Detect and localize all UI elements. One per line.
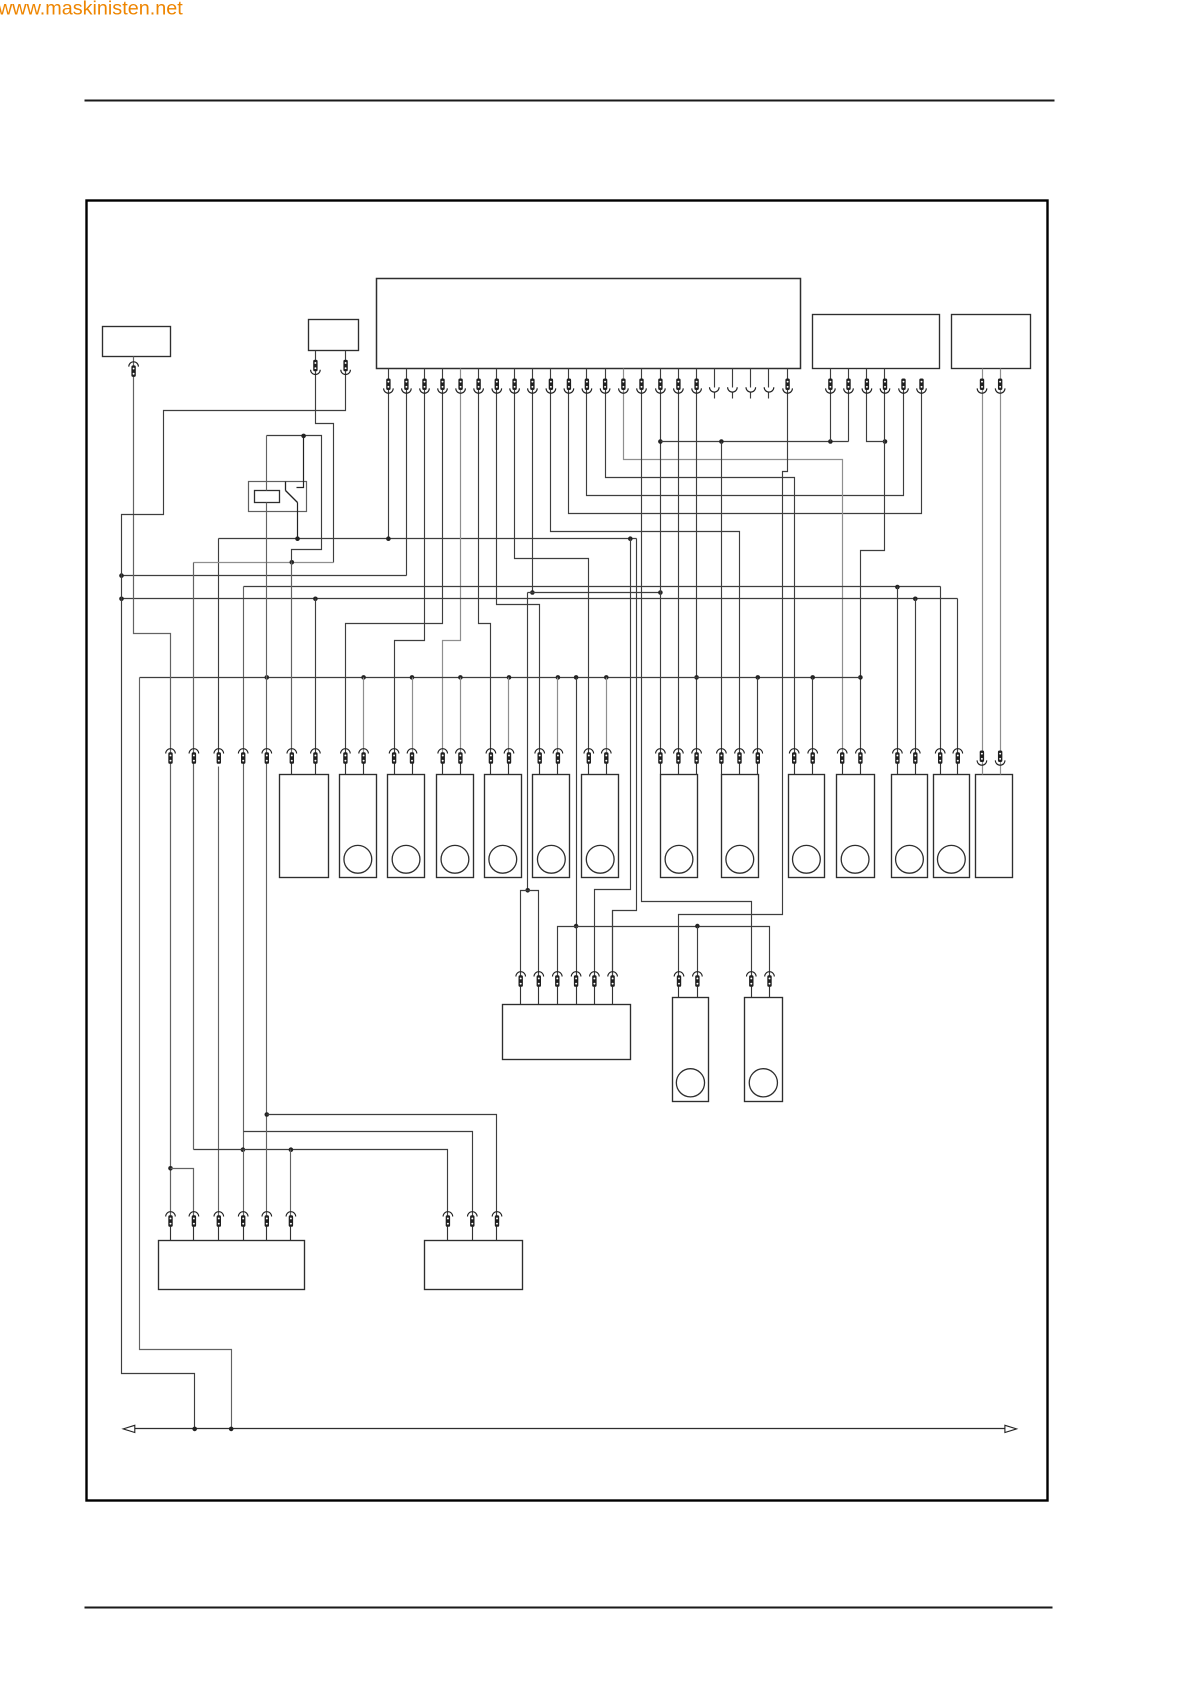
junction B3 pin4 wire on common bus [858,675,863,680]
stub into box I pin2 [739,764,741,775]
wire bus drop to lamp pin at x 509.0 [508,678,510,754]
stub into box R pin2 [769,987,771,998]
stub into box A pin2 [315,764,317,775]
wire W3 right end down to lamp M pin1 [940,587,942,754]
junction B3 pin1 end on h441 [828,439,833,444]
connector pin A1 [287,749,297,754]
component box A [280,775,329,878]
wire bus drop to lamp J pin2 [812,678,814,754]
connector pin P5 [590,972,600,977]
junction chain A branch to S2 [168,1166,173,1171]
junction common bus lamp D pin2 [458,675,463,680]
junction lamp Q pin2 on lower bus [695,924,700,929]
stub into box H pin2 [678,764,680,775]
connector pin F2 [553,749,563,754]
tail ECU pin22 [768,393,770,399]
connector pin I3 [753,749,763,754]
wire ECU pin13 to lamp J pin1 [606,369,795,754]
stub into box J pin1 [794,764,796,775]
connector pin P6 [608,972,618,977]
arrowhead bottom rail left [123,1425,135,1432]
connector pin S1 [166,1212,176,1217]
stub into box P pin4 [576,987,578,1005]
lamp box E [485,775,522,878]
stub into box B pin2 [363,764,365,775]
junction lamp A pin2 drop on W4 [313,597,318,602]
stub into box F pin1 [539,764,541,775]
connector pin Q2 [693,972,703,977]
ECU main control unit box [377,279,801,369]
lamp box L [892,775,928,878]
wire ECU pin12 across to B3 pin5 [587,369,904,496]
wire ECU pin23 to lamp Q pin1 [679,369,788,977]
connector pin F1 [535,749,545,754]
wire P4 drop from lower bus [576,927,578,977]
stub into box Q pin2 [697,987,699,998]
connector pin B2 [359,749,369,754]
connector pin B4 pin1 [980,379,984,391]
connector socket ECU pin19 unconnected [710,387,720,392]
lamp box C [388,775,425,878]
connector pin I2 [735,749,745,754]
connector pin ECU pin15 [639,379,643,391]
junction common bus lamp G pin2 [604,675,609,680]
wire B2 pin1 down jog chain B [316,351,334,563]
lamp box D [437,775,474,878]
relay K1 switch blade [286,491,298,503]
connector pin P4 [571,972,581,977]
wire ECU pin15 to lamp R pin1 [642,369,752,977]
relay K1 switch contact arm [297,437,304,488]
junction pin9 on W7 [530,590,535,595]
connector pin J2 [808,749,818,754]
connector pin on left box B1 [129,362,139,367]
connector pin N2 [998,751,1002,763]
inline connector at x 193.9 [189,749,199,754]
junction W7 on H1 riser [658,590,663,595]
lamp box H [661,775,698,878]
stub into box H pin3 [696,764,698,775]
lamp circle in box F [537,845,565,873]
connector pin G1 [584,749,594,754]
arrowhead bottom rail right [1005,1425,1017,1432]
wire W1 left end down to connector S3 chain [218,539,220,754]
wire bracket to P1 and P2 [521,891,539,977]
stub into box S pin5 [266,1227,268,1241]
connector pin H1 [656,749,666,754]
connector pin ECU pin17 [676,379,680,391]
junction ECU pin1 on W1 [386,536,391,541]
wire relay coil chain below coil [266,503,268,1217]
wire branch to T pin2 [244,1132,473,1217]
connector pin R1 [747,972,757,977]
tail ECU pin19 [714,393,716,399]
lamp box M [934,775,970,878]
stub into box D pin1 [442,764,444,775]
connector socket ECU pin22 unconnected [764,387,774,392]
junction lamp A pin1 net on chain B [290,560,295,565]
wire ECU pin8 to lamp G jog [515,369,589,754]
component box P [503,1005,631,1060]
connector pin P2 [534,972,544,977]
wire bus drop to lamp pin at x 606.3 [606,678,608,754]
connector pin D2 [456,749,466,754]
connector pin S5 [262,1212,272,1217]
junction pin18 on common bus [694,675,699,680]
connector pin S4 [238,1212,248,1217]
stub into box E pin2 [508,764,510,775]
stub into box S pin1 [170,1227,172,1241]
stub into box P pin1 [520,987,522,1005]
inline connector at x 218.8 [214,749,224,754]
tail ECU pin21 [750,393,752,399]
connector pin P1 [516,972,526,977]
connector pin R2 [765,972,775,977]
connector pin H2 [674,749,684,754]
wire stem W7 down to P1 P2 bracket [527,593,529,891]
connector pin C2 [407,749,417,754]
wire W4 right end down to lamp M pin2 [957,599,959,754]
junction h441 lamp I pin1 branch [719,439,724,444]
connector pin ECU pin3 [422,379,426,391]
connector pin L1 [893,749,903,754]
stub into box I pin1 [721,764,723,775]
stub into box M pin2 [957,764,959,775]
connector pin D1 [438,749,448,754]
diagram outer border frame [87,201,1048,1501]
lamp circle in box D [441,845,469,873]
inline connector at x 170.5 [166,749,176,754]
wire ECU pin4 to lamp B jog [346,369,443,754]
stub into box S pin2 [193,1227,195,1241]
wire relay net riser from chain B junction [267,436,322,563]
stub into box B pin1 [345,764,347,775]
box B1 left sensor [103,327,171,357]
stub into box Q pin1 [678,987,680,998]
lamp circle in box C [392,845,420,873]
bottom rail wire [129,1428,1011,1430]
stub into box K pin2 [860,764,862,775]
connector socket ECU pin21 unconnected [746,387,756,392]
junction common bus lamp E pin2 [507,675,512,680]
connector pin J1 [789,749,799,754]
wire bus drop to lower bus at P [576,678,578,927]
wire W3 left end down chain to S4 and T2 [243,587,245,1150]
junction S4 on chain B horizontal [241,1147,246,1152]
wire ECU pin7 to lamp F jog [497,369,540,754]
connector pin A2 [311,749,321,754]
connector pin ECU pin12 [585,379,589,391]
connector pin T3 [492,1212,502,1217]
connector pin N1 [980,751,984,763]
junction common bus lamp I pin3 [756,675,761,680]
wire ECU pin9 drop to net W7 [532,369,534,593]
wire ECU pin16 drop to lamp H pin1 [660,369,662,754]
lamp circle in box B [344,845,372,873]
box B4 far right module [952,315,1031,369]
connector pin 2 on box B2 [343,360,347,372]
wire S6 stub [290,1150,292,1217]
connector pin I1 [717,749,727,754]
lamp circle in box K [841,845,869,873]
wire bus drop to lamp I pin3 [757,678,759,754]
connector pin B3 pin2 [846,379,850,391]
lamp circle in box M [937,845,965,873]
wire B3 pin4 long drop to lamp K pin2 [861,369,885,754]
junction chain C branch to T3 [265,1112,270,1117]
stub into box P pin5 [594,987,596,1005]
stub into box C pin2 [412,764,414,775]
wire lamp L pin1 riser [897,587,899,754]
lamp box J [789,775,825,878]
connector pin ECU pin4 [440,379,444,391]
wire bus drop to lamp pin at x 363.6 [363,678,365,754]
wire bus drop to lamp pin at x 460.4 [460,678,462,754]
lamp box K [837,775,875,878]
stub into box T pin1 [447,1227,449,1241]
junction common bus lamp B pin2 [361,675,366,680]
connector pin ECU pin6 [476,379,480,391]
junction lamp L pin1 riser on W3 [895,585,900,590]
junction relay contact feed [301,434,306,439]
connector pin S6 [286,1212,296,1217]
wire net W7 horizontal [528,592,661,594]
connector pin ECU pin8 [512,379,516,391]
wire B4 pin2 drop to box N pin2 [1000,369,1002,775]
lamp box I [722,775,759,878]
stub into box P pin6 [612,987,614,1005]
wire ECU pin10 to lamp I pin2 [551,369,740,754]
lamp circle in box G [586,845,614,873]
wire ECU pin14 to lamp K pin1 [624,369,843,754]
wire P6 riser part [612,911,614,977]
connector pin ECU pin9 [530,379,534,391]
junction common bus lamp J pin2 [810,675,815,680]
connector pin B3 pin4 [883,379,887,391]
connector pin B1 [341,749,351,754]
lamp circle in box J [793,845,821,873]
stub into box H pin1 [660,764,662,775]
junction common bus coil chain [265,675,270,680]
stub into box P pin3 [557,987,559,1005]
wire relay coil chain down to S5 [266,436,268,491]
junction common bus lamp F pin2 [556,675,561,680]
connector pin ECU pin2 [404,379,408,391]
bottom horizontal rule [85,1607,1053,1609]
lamp box R [745,998,783,1102]
inline connector at x 266.8 [262,749,272,754]
junction W4 on left riser [119,597,124,602]
junction common bus P bus drop [574,675,579,680]
wire branch to S pin2 [171,1169,194,1217]
component box N [976,775,1013,878]
junction relay blade on W1 [295,536,300,541]
connector pin L2 [911,749,921,754]
svg-text:www.maskinisten.net: www.maskinisten.net [0,0,183,20]
wire W1 right end down to P6 jog [613,539,637,977]
connector pin M1 [935,749,945,754]
connector pin 1 on box B2 [313,360,317,372]
wire ECU pin2 drop to net W2 [406,369,408,576]
stub into box P pin2 [538,987,540,1005]
lamp circle in box Q [676,1069,704,1097]
top horizontal rule [85,99,1055,101]
wire ECU pin22 stub not connected [768,369,770,388]
lamp box B [340,775,377,878]
connector pin K1 [837,749,847,754]
connector pin E2 [504,749,514,754]
connector pin ECU pin16 [658,379,662,391]
tail ECU pin20 [732,393,734,399]
wire B4 pin1 drop to box N pin1 [982,369,984,775]
connector pin ECU pin18 [694,379,698,391]
relay K1 outer box [249,482,307,512]
wire ECU pin3 to lamp C jog [395,369,425,754]
lamp circle in box R [749,1069,777,1097]
wire left box pin down chain A [134,357,171,1217]
junction W2 on left riser [119,573,124,578]
junction pin16 on net h441 [658,439,663,444]
stub into box E pin1 [490,764,492,775]
wire lamp A pin1 drop [291,563,293,754]
lamp box Q [673,998,709,1102]
stub into box K pin1 [842,764,844,775]
wire B2 pin2 long chain to bottom rail [122,351,346,1429]
wire ECU pin6 to lamp E jog [479,369,491,754]
component box S [159,1241,305,1290]
wire h441 branch down to lamp I pin1 [721,442,723,754]
wire relay blade down to W1 [297,503,299,539]
wire net W1 horizontal [219,538,637,540]
wire net W3 horizontal [244,586,941,588]
stub into box S pin3 [218,1227,220,1241]
connector pin B4 pin2 [998,379,1002,391]
wire ECU pin11 across to B3 pin6 [569,369,922,514]
stub into box G pin1 [588,764,590,775]
connector pin ECU pin1 [386,379,390,391]
junction P5 riser on W1 [628,536,633,541]
wire common bus horizontal [140,677,861,679]
wire bus drop to lamp pin at x 557.9 [557,678,559,754]
junction B3 pin4 crossing on h441 [883,439,888,444]
stub into box L pin1 [897,764,899,775]
junction bottom rail left riser 2 [229,1427,234,1432]
inline connector at x 243.2 [238,749,248,754]
wire ECU pin5 to lamp D jog [443,369,461,754]
lamp box G [582,775,619,878]
wire lamp A pin2 drop [315,599,317,754]
connector pin G2 [602,749,612,754]
connector pin B3 pin5 [901,379,905,391]
wire net W2 horizontal [122,575,407,577]
stub into box S pin6 [290,1227,292,1241]
connector pin ECU pin23 [785,379,789,391]
junction lamp L pin2 riser on W4 [913,597,918,602]
connector socket ECU pin20 unconnected [728,387,738,392]
stub into box G pin2 [606,764,608,775]
stub into box I pin3 [757,764,759,775]
connector pin H3 [692,749,702,754]
connector pin Q1 [674,972,684,977]
wire B3 pin1 stub to h441 [830,369,832,442]
stub into box J pin2 [812,764,814,775]
wire common bus left end down to bottom rail [140,678,232,1429]
junction common bus lamp C pin2 [410,675,415,680]
stub into box M pin1 [940,764,942,775]
box B2 switch module [309,320,359,351]
wire branch to T pin3 [267,1115,497,1217]
relay K1 coil [255,491,280,503]
junction bottom rail left riser 1 [192,1427,197,1432]
wire chain B down to T1 horizontal [193,563,195,1150]
stub into box T pin3 [496,1227,498,1241]
wire lower bus horizontal [558,927,770,977]
junction S6 on chain B horizontal [289,1147,294,1152]
connector pin K2 [856,749,866,754]
wire S4 stub [243,1150,245,1217]
wire B3 pin2 rise end of h441 [848,369,850,442]
connector pin ECU pin10 [549,379,553,391]
wire ECU pin20 stub not connected [732,369,734,388]
stub into box D pin2 [460,764,462,775]
connector pin B3 pin3 [865,379,869,391]
lamp circle in box I [726,845,754,873]
connector pin B3 pin6 [919,379,923,391]
relay K1 switch pivot stub [285,482,287,491]
wire net h441 horizontal [661,441,849,443]
stub into box L pin2 [915,764,917,775]
connector pin T2 [468,1212,478,1217]
wire chain B gray horizontal [194,562,334,564]
stub into box C pin1 [394,764,396,775]
wire lamp Q pin2 drop [697,927,699,977]
connector pin T1 [443,1212,453,1217]
wire ECU pin1 drop to net W1 [388,369,390,539]
wire P5 feed from W1 [595,539,631,977]
wire ECU pin21 stub not connected [750,369,752,388]
connector pin S3 [214,1212,224,1217]
connector pin P3 [553,972,563,977]
connector pin ECU pin11 [567,379,571,391]
stub into box A pin1 [291,764,293,775]
stub into box F pin2 [557,764,559,775]
wire ECU pin18 drop to lamp H pin3 [696,369,698,754]
stub into box T pin2 [472,1227,474,1241]
lamp circle in box E [489,845,517,873]
stub into box S pin4 [243,1227,245,1241]
connector pin ECU pin5 [458,379,462,391]
junction stem bracket [525,888,530,893]
wire S3 chain below inline connector [218,767,220,1217]
connector pin ECU pin14 [621,379,625,391]
wire lamp L pin2 riser [915,599,917,754]
connector pin C1 [389,749,399,754]
connector pin B3 pin1 [828,379,832,391]
box B3 right module [813,315,940,369]
component box T [425,1241,523,1290]
wire bus drop to lamp pin at x 412.0 [412,678,414,754]
connector pin M2 [953,749,963,754]
wire chain B horizontal to T pin1 [194,1150,448,1217]
junction lower bus P4 [574,924,579,929]
connector pin E1 [486,749,496,754]
lamp circle in box L [896,845,924,873]
wire ECU pin19 stub not connected [714,369,716,388]
wire net W4 horizontal [122,598,958,600]
stub into box R pin1 [751,987,753,998]
wire ECU pin17 drop to lamp H pin2 [678,369,680,754]
connector pin ECU pin13 [603,379,607,391]
